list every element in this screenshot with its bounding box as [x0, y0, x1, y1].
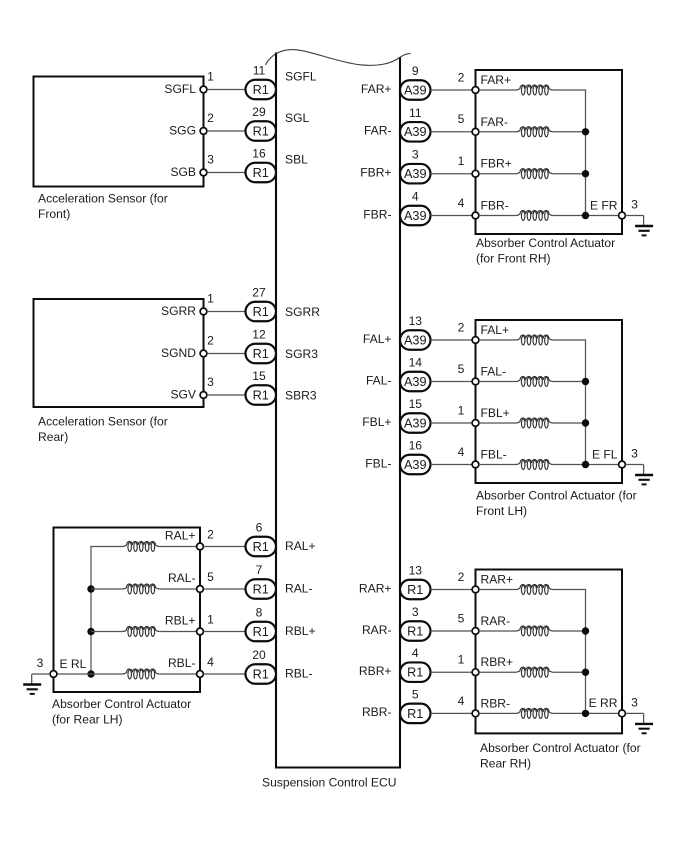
box: Absorber Control Actuator (for Front LH)	[476, 320, 623, 483]
pin 1 of Rear LH actuator	[197, 613, 215, 635]
svg-text:16: 16	[409, 439, 423, 453]
wire SGB: sensor pin 3 to ECU connector R1-16	[207, 172, 246, 174]
wire: E FL pin to ground	[625, 464, 643, 466]
svg-text:1: 1	[207, 292, 214, 306]
connector R1 pin 7 (RAL-) on ECU left edge	[246, 563, 277, 599]
wire: coil FAL- to bus	[553, 381, 586, 383]
svg-text:3: 3	[631, 198, 638, 212]
connector R1 pin 5 (RBR-) on ECU right edge	[400, 687, 431, 723]
svg-text:5: 5	[458, 362, 465, 376]
wire RBL+: actuator pin 1 to ECU connector R1-8	[203, 631, 245, 633]
junction on bus at E RL / RBL- row	[87, 670, 94, 677]
connector R1 pin 11 (SGFL) on ECU left edge	[246, 64, 277, 100]
svg-text:14: 14	[409, 356, 423, 370]
svg-text:FBL+: FBL+	[362, 415, 391, 429]
wire: E RR pin to ground	[625, 712, 643, 714]
svg-text:Rear RH): Rear RH)	[480, 757, 531, 771]
svg-text:(for Rear LH): (for Rear LH)	[52, 712, 123, 726]
inductor coil RBR- (Absorber Control Actuator (for Rear RH))	[516, 708, 552, 718]
svg-text:1: 1	[458, 403, 465, 417]
svg-text:FAR-: FAR-	[481, 115, 509, 129]
svg-text:SGV: SGV	[170, 388, 196, 402]
svg-text:11: 11	[253, 64, 266, 78]
svg-text:Absorber Control Actuator: Absorber Control Actuator	[52, 697, 191, 711]
pin 3 (E RL ground pin) of Rear LH actuator	[37, 656, 57, 677]
wire: actuator pin 5 to coil RAR-	[479, 630, 517, 632]
svg-text:2: 2	[458, 70, 465, 84]
svg-text:4: 4	[412, 646, 419, 660]
inductor coil RBR+ (Absorber Control Actuator (for Rear RH))	[516, 667, 552, 677]
inductor coil FAL- (Absorber Control Actuator (for Front LH))	[516, 376, 552, 386]
svg-text:R1: R1	[407, 624, 423, 638]
pin 5 of Absorber Control Actuator (for Front RH)	[458, 112, 479, 135]
svg-text:6: 6	[256, 521, 263, 535]
inductor coil FBL- (Absorber Control Actuator (for Front LH))	[516, 459, 552, 469]
svg-text:SGRR: SGRR	[161, 304, 196, 318]
svg-text:Absorber Control Actuator (for: Absorber Control Actuator (for	[476, 489, 637, 503]
svg-text:SGND: SGND	[161, 346, 196, 360]
svg-text:A39: A39	[404, 458, 427, 472]
svg-text:Rear): Rear)	[38, 430, 68, 444]
pin 2 of Absorber Control Actuator (for Front LH)	[458, 320, 479, 343]
wire: bus to coil RBL+	[91, 631, 123, 633]
svg-text:R1: R1	[253, 625, 269, 639]
pin 5 of Absorber Control Actuator (for Front LH)	[458, 362, 479, 385]
wire: actuator pin 5 to coil FAL-	[479, 381, 517, 383]
connector A39 pin 11 (FAR-) on ECU right edge	[400, 106, 431, 142]
svg-text:3: 3	[631, 696, 638, 710]
svg-text:SGG: SGG	[169, 124, 196, 138]
inductor coil RAR+ (Absorber Control Actuator (for Rear RH))	[516, 584, 552, 594]
wire FBR+: ECU connector A39-3 to actuator pin 1	[431, 173, 473, 175]
wire: actuator pin 2 to coil RAR+	[479, 589, 517, 591]
inductor coil RBL+ (Rear LH actuator)	[123, 626, 159, 636]
wire FBL-: ECU connector A39-16 to actuator pin 4	[431, 464, 473, 466]
inductor coil FBR- (Absorber Control Actuator (for Front RH))	[516, 210, 552, 220]
svg-text:FAR-: FAR-	[364, 124, 392, 138]
svg-text:SBL: SBL	[285, 153, 308, 167]
svg-text:FAL-: FAL-	[481, 365, 507, 379]
svg-text:2: 2	[207, 111, 214, 125]
connector A39 pin 15 (FBL+) on ECU right edge	[400, 397, 431, 433]
wire RAL-: actuator pin 5 to ECU connector R1-7	[203, 588, 245, 590]
svg-text:Suspension Control ECU: Suspension Control ECU	[262, 776, 396, 790]
wire: coil RBR- to bus to E RR pin	[553, 712, 619, 714]
svg-text:R1: R1	[253, 124, 269, 138]
inductor coil RAL+ (Rear LH actuator)	[123, 541, 159, 551]
svg-text:FBL+: FBL+	[481, 406, 510, 420]
svg-text:R1: R1	[253, 540, 269, 554]
pin 2 of Absorber Control Actuator (for Rear RH)	[458, 570, 479, 593]
pin 1 of Absorber Control Actuator (for Front LH)	[458, 403, 479, 426]
inductor coil FAL+ (Absorber Control Actuator (for Front LH))	[516, 335, 552, 345]
junction on bus at FAR-	[582, 128, 589, 135]
svg-text:A39: A39	[404, 125, 427, 139]
svg-text:R1: R1	[407, 707, 423, 721]
wire FBL+: ECU connector A39-15 to actuator pin 1	[431, 422, 473, 424]
wire RBR-: ECU connector R1-5 to actuator pin 4	[431, 712, 473, 714]
svg-text:4: 4	[207, 655, 214, 669]
svg-text:12: 12	[252, 328, 266, 342]
connector R1 pin 3 (RAR-) on ECU right edge	[400, 605, 431, 641]
svg-text:FAR+: FAR+	[361, 82, 392, 96]
svg-text:2: 2	[207, 334, 214, 348]
wire: internal common bus of Absorber Control Actuator (for Rear RH)	[585, 590, 587, 714]
svg-text:R1: R1	[253, 582, 269, 596]
svg-text:15: 15	[252, 369, 266, 383]
svg-text:A39: A39	[404, 375, 427, 389]
wire RBL-: actuator pin 4 to ECU connector R1-20	[203, 673, 245, 675]
svg-text:2: 2	[207, 528, 214, 542]
wire SGFL: sensor pin 1 to ECU connector R1-11	[207, 89, 246, 91]
junction on bus at FAL-	[582, 378, 589, 385]
wire: internal common bus of Absorber Control Actuator (for Front RH)	[585, 90, 587, 216]
wire FAR+: ECU connector A39-9 to actuator pin 2	[431, 89, 473, 91]
junction on bus at FBL+	[582, 419, 589, 426]
wire RAR-: ECU connector R1-3 to actuator pin 5	[431, 630, 473, 632]
svg-text:SGRR: SGRR	[285, 305, 320, 319]
wire SGND: sensor pin 2 to ECU connector R1-12	[207, 353, 246, 355]
wire: coil RAL+ to actuator pin 2	[159, 546, 197, 548]
wire: actuator pin 1 to coil FBR+	[479, 173, 517, 175]
wire: internal common bus of Rear LH actuator	[90, 547, 92, 675]
svg-text:3: 3	[631, 447, 638, 461]
inductor coil RAR- (Absorber Control Actuator (for Rear RH))	[516, 626, 552, 636]
connector A39 pin 13 (FAL+) on ECU right edge	[400, 314, 431, 350]
connector A39 pin 9 (FAR+) on ECU right edge	[400, 64, 431, 100]
wire: actuator pin 1 to coil RBR+	[479, 671, 517, 673]
pin 2 of Acceleration Sensor (for Rear)	[200, 334, 214, 357]
wire FAL+: ECU connector A39-13 to actuator pin 2	[431, 339, 473, 341]
inductor coil FAR+ (Absorber Control Actuator (for Front RH))	[516, 85, 552, 95]
wire: coil RAR- to bus	[553, 630, 586, 632]
svg-text:RAR-: RAR-	[362, 623, 392, 637]
svg-text:FBR+: FBR+	[481, 157, 512, 171]
svg-text:FBR+: FBR+	[360, 166, 391, 180]
svg-text:A39: A39	[404, 416, 427, 430]
svg-text:15: 15	[409, 397, 423, 411]
svg-text:5: 5	[458, 112, 465, 126]
svg-text:29: 29	[252, 105, 266, 119]
connector A39 pin 3 (FBR+) on ECU right edge	[400, 148, 431, 184]
wire RAL+: actuator pin 2 to ECU connector R1-6	[203, 546, 245, 548]
svg-text:R1: R1	[253, 83, 269, 97]
inductor coil FAR- (Absorber Control Actuator (for Front RH))	[516, 127, 552, 137]
svg-text:R1: R1	[253, 388, 269, 402]
connector R1 pin 29 (SGL) on ECU left edge	[246, 105, 277, 141]
pin 4 of Absorber Control Actuator (for Front LH)	[458, 445, 479, 468]
wire: actuator pin 1 to coil FBL+	[479, 422, 517, 424]
pin 3 (E RR ground pin) of Absorber Control Actuator (for Rear RH)	[619, 696, 639, 717]
connector R1 pin 12 (SGR3) on ECU left edge	[246, 328, 277, 364]
wire RAR+: ECU connector R1-13 to actuator pin 2	[431, 589, 473, 591]
pin 3 of Acceleration Sensor (for Rear)	[200, 375, 214, 398]
svg-text:9: 9	[412, 64, 419, 78]
inductor coil FBR+ (Absorber Control Actuator (for Front RH))	[516, 169, 552, 179]
svg-text:R1: R1	[407, 583, 423, 597]
wire: coil FBR- to bus to E FR pin	[553, 215, 619, 217]
svg-text:RAL+: RAL+	[285, 539, 316, 553]
svg-text:4: 4	[458, 445, 465, 459]
wire FAR-: ECU connector A39-11 to actuator pin 5	[431, 131, 473, 133]
pin 2 of Acceleration Sensor (for Front)	[200, 111, 214, 134]
wire: internal common bus of Absorber Control Actuator (for Front LH)	[585, 340, 587, 465]
svg-text:1: 1	[458, 154, 465, 168]
connector R1 pin 16 (SBL) on ECU left edge	[246, 147, 277, 183]
svg-text:FBR-: FBR-	[481, 199, 509, 213]
connector R1 pin 6 (RAL+) on ECU left edge	[246, 521, 277, 557]
wire: coil RAL- to actuator pin 5	[159, 588, 197, 590]
svg-text:4: 4	[458, 694, 465, 708]
svg-text:A39: A39	[404, 167, 427, 181]
connector R1 pin 27 (SGRR) on ECU left edge	[246, 286, 277, 322]
svg-text:SBR3: SBR3	[285, 388, 317, 402]
svg-text:RBL-: RBL-	[168, 656, 196, 670]
svg-text:FBL-: FBL-	[481, 448, 507, 462]
connector A39 pin 14 (FAL-) on ECU right edge	[400, 356, 431, 392]
svg-text:RAL-: RAL-	[285, 582, 313, 596]
connector R1 pin 8 (RBL+) on ECU left edge	[246, 606, 277, 642]
svg-text:Absorber Control Actuator: Absorber Control Actuator	[476, 236, 615, 250]
svg-text:3: 3	[207, 153, 214, 167]
svg-text:FAL+: FAL+	[481, 323, 510, 337]
svg-text:R1: R1	[253, 166, 269, 180]
svg-text:5: 5	[458, 611, 465, 625]
pin 1 of Absorber Control Actuator (for Front RH)	[458, 154, 479, 177]
ground (Absorber Control Actuator (for Rear RH) E RR)	[635, 713, 653, 733]
svg-text:1: 1	[458, 653, 465, 667]
svg-text:RBL+: RBL+	[285, 624, 316, 638]
svg-text:RAR+: RAR+	[359, 581, 392, 595]
svg-text:R1: R1	[253, 305, 269, 319]
pin 5 of Rear LH actuator	[197, 570, 215, 592]
box: Absorber Control Actuator (for Rear RH)	[476, 570, 623, 734]
wire RBR+: ECU connector R1-4 to actuator pin 1	[431, 671, 473, 673]
svg-text:16: 16	[252, 147, 266, 161]
inductor coil FBL+ (Absorber Control Actuator (for Front LH))	[516, 418, 552, 428]
svg-text:Front): Front)	[38, 207, 70, 221]
svg-text:4: 4	[412, 190, 419, 204]
pin 1 of Absorber Control Actuator (for Rear RH)	[458, 653, 479, 676]
svg-text:A39: A39	[404, 209, 427, 223]
svg-text:SGFL: SGFL	[285, 70, 317, 84]
junction on bus at RAL-	[87, 585, 94, 592]
pin 3 of Acceleration Sensor (for Front)	[200, 153, 214, 176]
svg-text:E RL: E RL	[60, 657, 87, 671]
wire: actuator pin 5 to coil FAR-	[479, 131, 517, 133]
wire: actuator pin 4 to coil FBL-	[479, 464, 517, 466]
svg-text:7: 7	[256, 563, 263, 577]
svg-text:3: 3	[412, 148, 419, 162]
wire: actuator pin 4 to coil RBR-	[479, 712, 517, 714]
svg-text:SGFL: SGFL	[164, 82, 196, 96]
svg-text:R1: R1	[407, 666, 423, 680]
pin 1 of Acceleration Sensor (for Front)	[200, 70, 214, 93]
svg-text:A39: A39	[404, 333, 427, 347]
junction on bus at RAR-	[582, 627, 589, 634]
ground (Absorber Control Actuator (for Front LH) E FL)	[635, 465, 653, 485]
svg-text:Acceleration Sensor (for: Acceleration Sensor (for	[38, 414, 168, 428]
svg-text:5: 5	[207, 570, 214, 584]
pin 3 (E FL ground pin) of Absorber Control Actuator (for Front LH)	[619, 447, 639, 468]
wire FAL-: ECU connector A39-14 to actuator pin 5	[431, 381, 473, 383]
svg-text:FAR+: FAR+	[481, 73, 512, 87]
svg-text:3: 3	[37, 656, 44, 670]
svg-text:R1: R1	[253, 347, 269, 361]
wire: coil RBL- to actuator pin 4	[159, 673, 197, 675]
pin 5 of Absorber Control Actuator (for Rear RH)	[458, 611, 479, 634]
connector R1 pin 13 (RAR+) on ECU right edge	[400, 564, 431, 600]
wire FBR-: ECU connector A39-4 to actuator pin 4	[431, 215, 473, 217]
junction on bus at FBR+	[582, 170, 589, 177]
wire: coil FBL- to bus to E FL pin	[553, 464, 619, 466]
wire: actuator pin 4 to coil FBR-	[479, 215, 517, 217]
svg-text:FAL-: FAL-	[366, 373, 392, 387]
svg-text:RAR+: RAR+	[481, 573, 514, 587]
junction on bus at FBL-	[582, 461, 589, 468]
svg-text:RBR+: RBR+	[359, 664, 392, 678]
connector R1 pin 20 (RBL-) on ECU left edge	[246, 648, 277, 684]
junction on bus at RBR-	[582, 710, 589, 717]
pin 2 of Absorber Control Actuator (for Front RH)	[458, 70, 479, 93]
wire: coil FBR+ to bus	[553, 173, 586, 175]
box: Acceleration Sensor (for Rear)	[34, 299, 204, 407]
wire: coil RBR+ to bus	[553, 671, 586, 673]
pin 2 of Rear LH actuator	[197, 528, 215, 550]
pin 4 of Absorber Control Actuator (for Rear RH)	[458, 694, 479, 717]
svg-text:SGL: SGL	[285, 111, 309, 125]
wire: coil RAR+ to bus corner	[553, 589, 587, 591]
ground (Absorber Control Actuator (for Front RH) E FR)	[635, 216, 653, 236]
svg-text:13: 13	[409, 314, 423, 328]
wire: E FR pin to ground	[625, 215, 643, 217]
wire: E RL pin to ground	[32, 673, 50, 675]
svg-text:RBR+: RBR+	[481, 655, 514, 669]
pin 1 of Acceleration Sensor (for Rear)	[200, 292, 214, 315]
box: Acceleration Sensor (for Front)	[34, 77, 204, 187]
connector R1 pin 4 (RBR+) on ECU right edge	[400, 646, 431, 682]
connector A39 pin 16 (FBL-) on ECU right edge	[400, 439, 431, 475]
svg-text:13: 13	[409, 564, 423, 578]
pin 4 of Absorber Control Actuator (for Front RH)	[458, 196, 479, 219]
wire: actuator pin 2 to coil FAR+	[479, 89, 517, 91]
svg-text:11: 11	[409, 106, 422, 120]
svg-text:E FL: E FL	[592, 447, 618, 461]
wire: bus corner to coil RAL+	[90, 546, 123, 548]
inductor coil RBL- (Rear LH actuator)	[123, 669, 159, 679]
svg-text:SGB: SGB	[170, 165, 196, 179]
pin 4 of Rear LH actuator	[197, 655, 215, 677]
svg-text:Acceleration Sensor (for: Acceleration Sensor (for	[38, 191, 168, 205]
wire: coil FAR+ to bus corner	[553, 89, 587, 91]
svg-text:Absorber Control Actuator (for: Absorber Control Actuator (for	[480, 741, 641, 755]
svg-text:FBR-: FBR-	[363, 207, 391, 221]
ground (Rear LH actuator E RL)	[23, 674, 41, 694]
svg-text:20: 20	[252, 648, 266, 662]
svg-text:E RR: E RR	[589, 696, 618, 710]
svg-text:1: 1	[207, 70, 214, 84]
svg-text:RAL+: RAL+	[165, 529, 196, 543]
svg-text:1: 1	[207, 613, 214, 627]
wire: bus to coil RAL-	[91, 588, 123, 590]
svg-text:RBR-: RBR-	[481, 696, 511, 710]
svg-text:SGR3: SGR3	[285, 347, 318, 361]
junction on bus at RBL+	[87, 628, 94, 635]
svg-text:R1: R1	[253, 667, 269, 681]
connector A39 pin 4 (FBR-) on ECU right edge	[400, 190, 431, 226]
svg-text:3: 3	[207, 375, 214, 389]
svg-text:Front LH): Front LH)	[476, 504, 527, 518]
box: Absorber Control Actuator (for Rear LH)	[54, 528, 201, 693]
pin 3 (E FR ground pin) of Absorber Control Actuator (for Front RH)	[619, 198, 639, 219]
wire: coil FAL+ to bus corner	[553, 339, 587, 341]
wire: coil RBL+ to actuator pin 1	[159, 631, 197, 633]
svg-text:8: 8	[256, 606, 263, 620]
wire SGRR: sensor pin 1 to ECU connector R1-27	[207, 311, 246, 313]
junction on bus at RBR+	[582, 669, 589, 676]
svg-text:2: 2	[458, 320, 465, 334]
svg-text:RAL-: RAL-	[168, 571, 196, 585]
svg-text:4: 4	[458, 196, 465, 210]
ECU box: Suspension Control ECU (body outline with torn wavy top)	[266, 50, 411, 768]
svg-text:3: 3	[412, 605, 419, 619]
wire: actuator pin 2 to coil FAL+	[479, 339, 517, 341]
svg-text:RBL+: RBL+	[165, 614, 196, 628]
svg-text:A39: A39	[404, 83, 427, 97]
box: Absorber Control Actuator (for Front RH)	[476, 70, 623, 234]
svg-text:FAL+: FAL+	[363, 332, 392, 346]
wire SGV: sensor pin 3 to ECU connector R1-15	[207, 394, 246, 396]
svg-text:FBL-: FBL-	[365, 456, 391, 470]
wire: coil FAR- to bus	[553, 131, 586, 133]
svg-text:RBR-: RBR-	[362, 705, 392, 719]
svg-text:RAR-: RAR-	[481, 614, 511, 628]
svg-text:27: 27	[252, 286, 266, 300]
connector R1 pin 15 (SBR3) on ECU left edge	[246, 369, 277, 405]
wire: coil FBL+ to bus	[553, 422, 586, 424]
wire SGG: sensor pin 2 to ECU connector R1-29	[207, 130, 246, 132]
svg-text:RBL-: RBL-	[285, 667, 313, 681]
svg-text:2: 2	[458, 570, 465, 584]
inductor coil RAL- (Rear LH actuator)	[123, 584, 159, 594]
svg-text:5: 5	[412, 687, 419, 701]
wire: E RL pin to bus to coil RBL-	[57, 673, 123, 675]
svg-text:(for Front RH): (for Front RH)	[476, 252, 551, 266]
svg-text:E FR: E FR	[590, 198, 618, 212]
junction on bus at FBR-	[582, 212, 589, 219]
